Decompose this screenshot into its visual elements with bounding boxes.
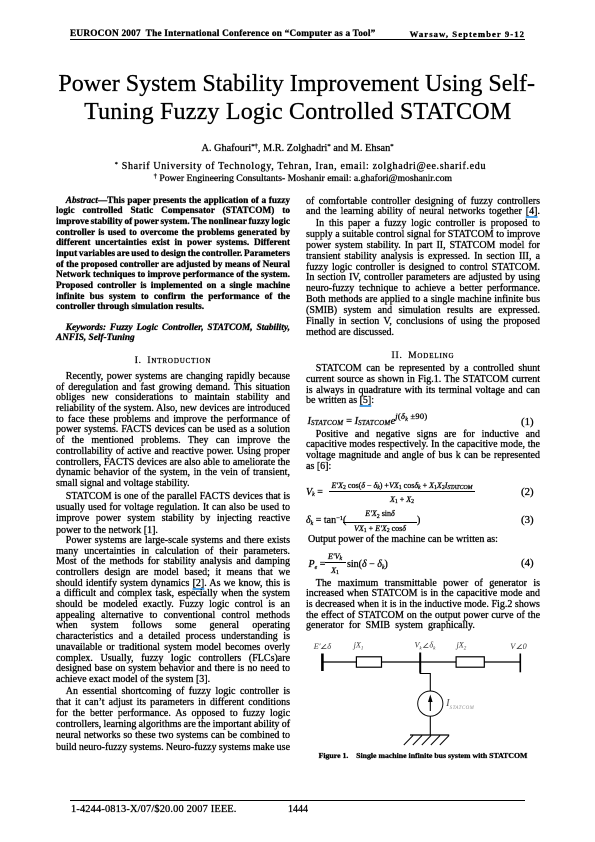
svg-text:jX2: jX2 (456, 641, 467, 652)
svg-text:V: V (510, 642, 516, 651)
svg-text:ISTATCOM: ISTATCOM (445, 697, 475, 711)
svg-text:Vk: Vk (415, 641, 423, 652)
svg-text:E′: E′ (313, 642, 321, 651)
svg-text:jX1: jX1 (353, 641, 364, 652)
svg-text:δ: δ (327, 642, 331, 651)
svg-text:0: 0 (523, 642, 527, 651)
svg-text:δk: δk (429, 641, 436, 652)
